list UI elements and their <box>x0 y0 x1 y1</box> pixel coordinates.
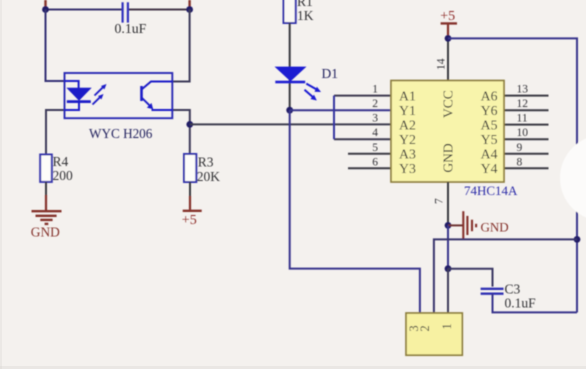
node junction top-left <box>42 6 49 13</box>
svg-text:R4: R4 <box>53 154 69 169</box>
svg-text:13: 13 <box>517 84 529 96</box>
wire +5 rail to connector pin 2 <box>434 239 577 313</box>
wire IC pin 7 down <box>447 182 449 225</box>
node junction at optocoupler output <box>186 121 193 128</box>
svg-text:14: 14 <box>436 58 448 70</box>
power +5 (below R3) <box>182 211 202 228</box>
svg-text:12: 12 <box>517 98 529 110</box>
svg-text:GND: GND <box>31 225 60 240</box>
resistor R1 <box>284 0 314 23</box>
capacitor C3 <box>481 282 537 311</box>
optocoupler WYC H206 <box>65 73 173 141</box>
node junction pin7 / GND <box>445 222 452 229</box>
wire pin7 net down <box>447 225 449 268</box>
svg-text:Y2: Y2 <box>399 132 416 147</box>
svg-text:A5: A5 <box>481 117 498 132</box>
wire IC pin 5 stub <box>348 153 391 155</box>
svg-text:7: 7 <box>434 198 446 204</box>
wire pin7 net to connector pin 1 <box>447 269 449 313</box>
wire D1 net to connector pin 3 <box>290 110 420 313</box>
wire optocoupler output to IC pin 3 <box>190 123 391 125</box>
svg-text:74HC14A: 74HC14A <box>464 183 518 198</box>
wire +5 rail lower segment <box>576 239 578 312</box>
wire IC pin 8 stub <box>504 167 549 169</box>
power stub (top-left, off-sheet) <box>44 0 46 8</box>
svg-text:VCC: VCC <box>441 90 456 118</box>
wire optocoupler collector up to top bus <box>172 10 189 82</box>
svg-text:WYC H206: WYC H206 <box>89 126 153 141</box>
svg-text:1: 1 <box>440 323 454 329</box>
svg-text:1K: 1K <box>297 8 314 23</box>
resistor R3 <box>184 154 220 184</box>
node junction below D1 <box>286 107 293 114</box>
power +5 (top right) <box>440 9 457 38</box>
wire emitter junction to R3 <box>189 124 191 154</box>
svg-text:5: 5 <box>372 142 378 154</box>
svg-text:3: 3 <box>372 113 378 125</box>
svg-text:+5: +5 <box>182 213 197 228</box>
svg-text:4: 4 <box>372 127 378 139</box>
svg-text:GND: GND <box>441 143 456 172</box>
wire junction to C3 top <box>448 269 493 287</box>
wire left rail down to optocoupler anode <box>46 10 65 82</box>
svg-text:A3: A3 <box>399 147 416 162</box>
power stub (top-right, off-sheet) <box>188 0 190 8</box>
wire optocoupler cathode to R4 <box>46 110 65 155</box>
svg-text:11: 11 <box>517 113 528 125</box>
svg-text:20K: 20K <box>197 169 221 184</box>
capacitor 0.1uF (top) <box>115 2 147 36</box>
svg-text:0.1uF: 0.1uF <box>505 295 537 310</box>
wire IC pin 6 stub <box>348 167 391 169</box>
svg-text:200: 200 <box>53 168 74 183</box>
LED D1 <box>275 66 338 101</box>
svg-text:9: 9 <box>517 142 523 154</box>
svg-text:2: 2 <box>372 98 378 110</box>
svg-text:A2: A2 <box>399 117 416 132</box>
svg-text:+5: +5 <box>440 9 455 24</box>
LED light arrows <box>95 87 104 95</box>
wire IC pin 10 stub <box>504 138 549 140</box>
svg-text:R3: R3 <box>198 155 214 170</box>
node junction top-right <box>186 6 193 13</box>
svg-text:A6: A6 <box>481 88 498 103</box>
wire IC pin 13 stub <box>504 95 549 97</box>
wire IC pin 11 stub <box>504 124 549 126</box>
svg-text:Y3: Y3 <box>399 161 416 176</box>
wire top bus right segment <box>129 9 190 11</box>
svg-text:Y4: Y4 <box>481 161 498 176</box>
wire R3 to +5 <box>189 182 191 197</box>
node junction +5 rail <box>574 236 581 243</box>
wire C3 bottom to +5 rail <box>493 294 578 313</box>
svg-text:GND: GND <box>481 219 509 234</box>
svg-text:0.1uF: 0.1uF <box>115 21 147 36</box>
wire +5 rail right and down <box>448 38 577 239</box>
wire R4 to ground <box>45 182 47 196</box>
svg-text:Y1: Y1 <box>399 103 416 118</box>
svg-text:6: 6 <box>372 156 378 168</box>
svg-text:2: 2 <box>418 325 432 331</box>
IC U1 74HC14A <box>391 81 518 199</box>
wire +5 to IC pin 14 <box>447 38 449 80</box>
node junction pin7 net / C3 <box>445 265 452 272</box>
wire top bus left segment <box>46 9 122 11</box>
resistor R4 <box>40 154 73 183</box>
svg-text:A4: A4 <box>481 147 498 162</box>
wire IC pin 9 stub <box>504 153 549 155</box>
phototransistor inside optocoupler <box>140 86 143 101</box>
connector J1 <box>406 313 462 355</box>
svg-text:1: 1 <box>372 84 378 96</box>
wire bracket joining IC pins 1 and 4 <box>334 96 391 140</box>
LED inside optocoupler <box>65 81 79 88</box>
node junction at +5 <box>445 35 452 42</box>
svg-text:10: 10 <box>517 127 529 139</box>
svg-text:8: 8 <box>517 156 523 168</box>
white watermark circle (decorative) <box>560 135 586 221</box>
svg-text:A1: A1 <box>399 88 416 103</box>
wire D1 junction to IC pin 2 <box>290 109 391 111</box>
svg-text:Y5: Y5 <box>481 132 498 147</box>
wire optocoupler emitter down to junction <box>172 110 190 124</box>
ground GND (left) <box>31 211 62 239</box>
svg-text:Y6: Y6 <box>481 103 498 118</box>
ground GND (near pin 7) <box>448 211 509 239</box>
wire R1 to D1 <box>289 23 291 110</box>
svg-text:D1: D1 <box>322 66 339 81</box>
wire IC pin 12 stub <box>504 109 549 111</box>
